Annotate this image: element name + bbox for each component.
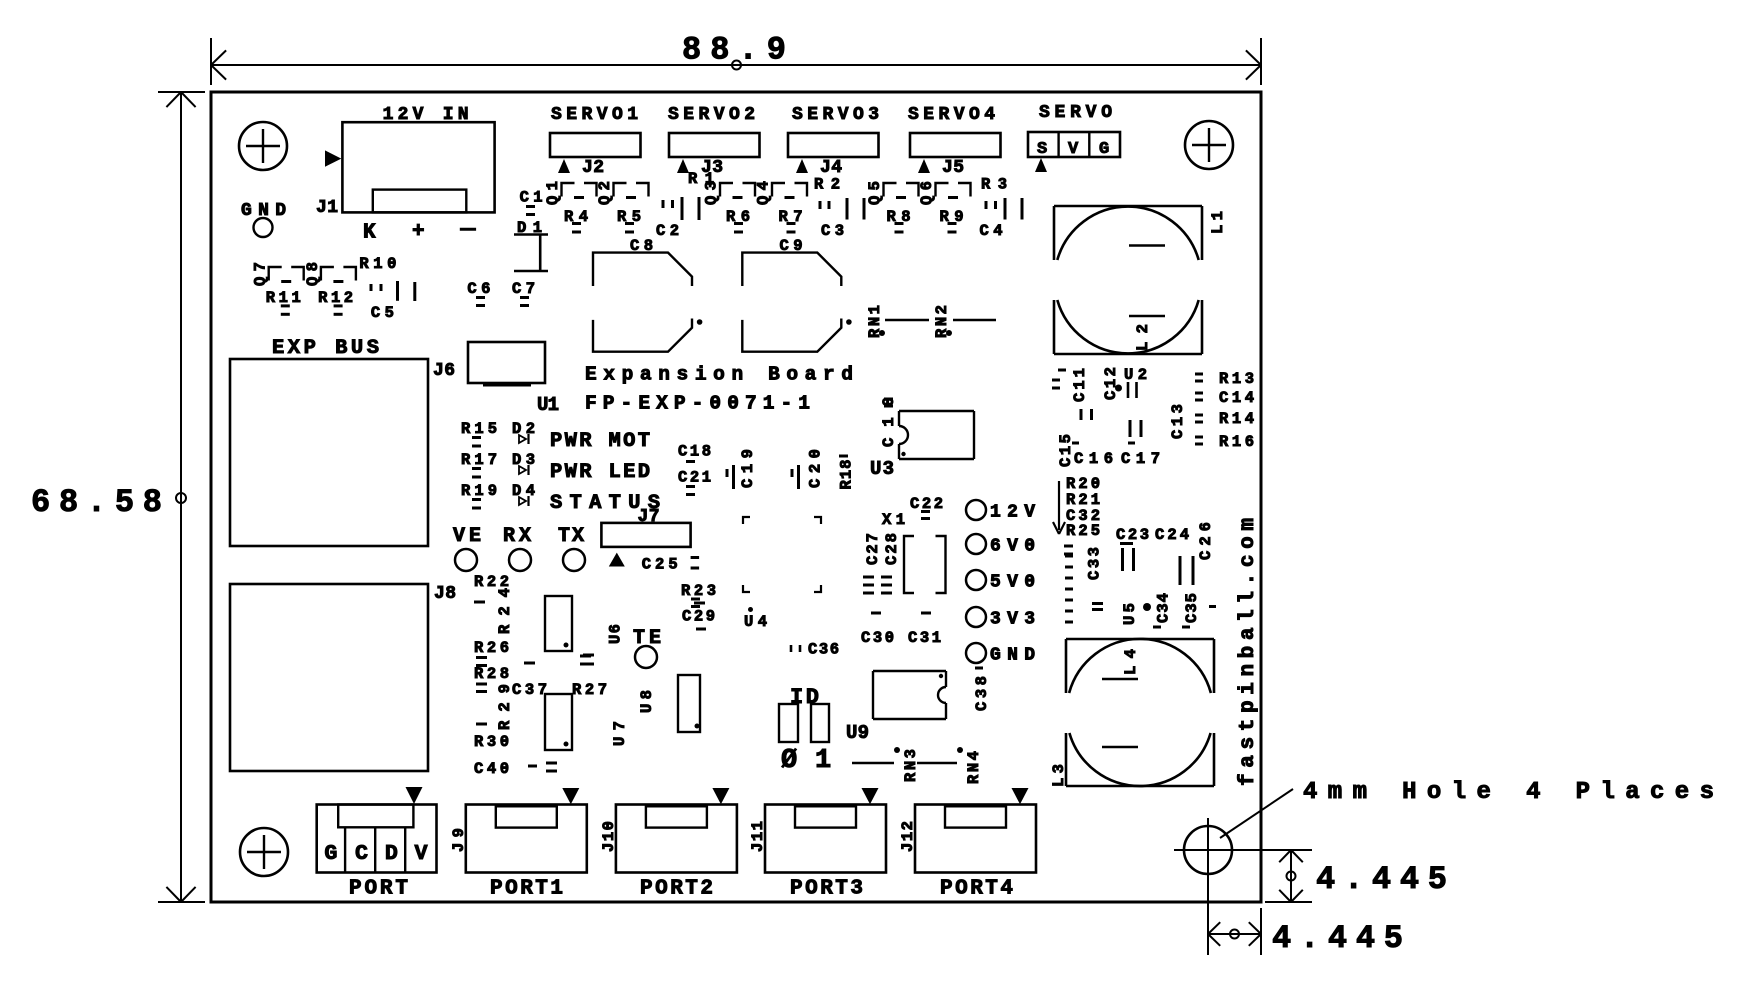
svg-text:PWR MOT: PWR MOT [550, 430, 650, 453]
svg-text:RN3: RN3 [902, 749, 920, 782]
capacitor C2 footprint marks [662, 200, 665, 208]
svg-text:C1: C1 [520, 189, 543, 207]
svg-text:C18: C18 [678, 443, 711, 461]
dimension: hole offset 4.445 vertical [1290, 850, 1292, 902]
svg-text:C38: C38 [973, 676, 991, 711]
svg-text:C36: C36 [808, 641, 839, 659]
svg-text:PORT: PORT [349, 878, 408, 901]
svg-text:C11: C11 [1071, 368, 1089, 402]
svg-text:SERVO4: SERVO4 [908, 105, 995, 125]
svg-text:12V: 12V [990, 503, 1035, 523]
connector J10 PORT2 [616, 805, 737, 873]
svg-text:C17: C17 [1121, 450, 1160, 468]
svg-text:GND: GND [990, 646, 1035, 666]
svg-text:Q6: Q6 [918, 181, 936, 205]
IC U7 footprint [545, 694, 572, 750]
svg-text:R23: R23 [681, 582, 716, 600]
svg-text:J10: J10 [600, 821, 618, 852]
svg-text:ID: ID [790, 685, 819, 710]
svg-text:R3: R3 [981, 176, 1007, 194]
svg-text:U2: U2 [1124, 366, 1147, 384]
svg-text:SERVO1: SERVO1 [551, 105, 638, 125]
svg-text:U4: U4 [744, 613, 767, 631]
jumper pad 1 [811, 704, 829, 742]
svg-text:R15: R15 [461, 420, 497, 438]
inductor L1 [1054, 205, 1202, 208]
test point 6V0 [966, 534, 986, 554]
svg-text:C28: C28 [883, 533, 901, 565]
svg-text:C13: C13 [1169, 404, 1187, 439]
svg-text:R28: R28 [474, 665, 509, 683]
svg-text:C27: C27 [864, 533, 882, 565]
svg-text:K: K [363, 222, 376, 245]
svg-text:R13: R13 [1219, 370, 1254, 388]
svg-text:RX: RX [503, 525, 531, 548]
capacitor C4 footprint marks [985, 201, 988, 209]
svg-text:Q5: Q5 [866, 181, 884, 205]
svg-text:R26: R26 [474, 639, 509, 657]
svg-text:U1: U1 [537, 394, 559, 416]
svg-text:R24: R24 [496, 588, 514, 634]
svg-text:C33: C33 [1086, 547, 1104, 580]
svg-text:C26: C26 [1197, 522, 1215, 560]
inductor L4 [1066, 638, 1214, 641]
svg-text:J11: J11 [749, 821, 767, 852]
svg-text:C: C [355, 841, 368, 866]
svg-text:C25: C25 [642, 556, 678, 574]
inductor L2 [1054, 353, 1202, 356]
svg-text:EXP BUS: EXP BUS [272, 337, 379, 360]
svg-text:PORT2: PORT2 [640, 878, 713, 901]
svg-text:C12: C12 [1102, 367, 1120, 400]
dimension: vertical board height 68.58 [180, 92, 182, 902]
connector PORT (G C D V) [317, 805, 437, 873]
svg-text:U7: U7 [611, 721, 629, 746]
svg-text:C2: C2 [656, 222, 679, 240]
pointer arrow for R20-R25 group [1058, 481, 1060, 530]
svg-text:Q8: Q8 [304, 262, 322, 286]
svg-text:PORT4: PORT4 [940, 878, 1013, 901]
connector J8 EXP BUS jack [230, 584, 428, 771]
svg-text:C34: C34 [1155, 593, 1173, 623]
svg-text:Q4: Q4 [755, 181, 773, 205]
svg-text:4.445: 4.445 [1316, 861, 1447, 898]
svg-text:C29: C29 [682, 608, 715, 626]
mounting hole top-left [239, 122, 287, 170]
svg-text:Q1: Q1 [544, 181, 562, 205]
svg-text:C31: C31 [908, 629, 941, 647]
svg-text:V: V [414, 841, 427, 866]
svg-text:1: 1 [815, 746, 831, 776]
svg-text:C16: C16 [1074, 450, 1113, 468]
svg-text:J1: J1 [316, 198, 338, 218]
svg-text:Q7: Q7 [252, 262, 270, 286]
leader 4mm hole note [1220, 789, 1293, 838]
svg-text:G: G [324, 841, 337, 866]
svg-text:R18: R18 [838, 460, 856, 490]
svg-text:C21: C21 [678, 468, 711, 486]
svg-text:fastpinball.com: fastpinball.com [1237, 518, 1260, 786]
dimension: hole offset 4.445 horizontal [1208, 933, 1261, 935]
svg-text:R16: R16 [1219, 433, 1254, 451]
svg-text:C24: C24 [1155, 526, 1189, 544]
connector J9 PORT1 [466, 805, 587, 873]
svg-text:RN4: RN4 [965, 751, 983, 784]
svg-text:C40: C40 [474, 760, 509, 778]
svg-text:R10: R10 [359, 255, 396, 273]
svg-text:SERVO3: SERVO3 [792, 105, 879, 125]
svg-text:C23: C23 [1116, 526, 1149, 544]
svg-text:D: D [385, 841, 398, 866]
svg-text:U6: U6 [607, 624, 625, 644]
connector J1 12V IN [342, 122, 494, 212]
svg-text:PORT3: PORT3 [790, 878, 863, 901]
svg-text:D2: D2 [512, 420, 535, 438]
svg-text:SERVO2: SERVO2 [668, 105, 755, 125]
IC U4 footprint corners [743, 517, 750, 524]
svg-text:X1: X1 [882, 511, 905, 529]
IC U9 [873, 670, 946, 672]
svg-text:Expansion Board: Expansion Board [585, 363, 853, 385]
svg-text:G: G [1099, 140, 1109, 159]
svg-text:R14: R14 [1219, 410, 1254, 428]
svg-text:R30: R30 [474, 733, 509, 751]
svg-text:Q2: Q2 [596, 181, 614, 205]
svg-text:+: + [412, 221, 425, 244]
svg-text:C15: C15 [1057, 434, 1075, 467]
capacitor C5 footprint marks [370, 284, 373, 291]
connector J11 PORT3 [765, 805, 886, 873]
svg-text:6V0: 6V0 [990, 537, 1035, 557]
svg-text:J2: J2 [582, 158, 604, 178]
svg-text:L4: L4 [1122, 649, 1140, 675]
svg-text:C3: C3 [821, 222, 844, 240]
svg-text:C30: C30 [861, 629, 894, 647]
svg-text:TX: TX [558, 525, 584, 548]
svg-text:C6: C6 [467, 280, 490, 298]
svg-text:J6: J6 [433, 361, 455, 381]
svg-text:4mm Hole 4 Places: 4mm Hole 4 Places [1303, 779, 1714, 806]
svg-text:C35: C35 [1183, 593, 1201, 623]
svg-text:88.9: 88.9 [682, 32, 786, 69]
svg-text:J8: J8 [434, 584, 456, 604]
svg-text:PWR LED: PWR LED [550, 461, 650, 484]
IC U8 footprint [678, 675, 700, 732]
svg-text:D3: D3 [512, 451, 535, 469]
svg-text:U3: U3 [870, 458, 894, 480]
svg-text:U8: U8 [638, 690, 656, 713]
svg-text:FP-EXP-0071-1: FP-EXP-0071-1 [585, 393, 810, 415]
svg-text:5V0: 5V0 [990, 573, 1035, 593]
svg-text:C5: C5 [371, 304, 394, 322]
svg-text:C20: C20 [807, 449, 825, 488]
test point 3V3 [966, 607, 986, 627]
svg-text:R19: R19 [461, 482, 497, 500]
svg-text:VE: VE [453, 525, 481, 548]
test point 5V0 [966, 570, 986, 590]
mounting hole top-right [1185, 121, 1233, 169]
svg-text:S: S [1037, 140, 1047, 159]
board outline [211, 92, 1261, 902]
mounting hole bottom-left [240, 828, 288, 876]
svg-text:C19: C19 [739, 449, 757, 488]
svg-text:PORT1: PORT1 [490, 878, 563, 901]
IC U3 [899, 410, 974, 412]
svg-text:L2: L2 [1134, 324, 1152, 351]
svg-text:J12: J12 [899, 821, 917, 852]
svg-text:68.58: 68.58 [31, 484, 162, 521]
jumper pad 0 [779, 704, 798, 742]
svg-text:3V3: 3V3 [990, 610, 1035, 630]
IC U6 footprint [545, 596, 572, 651]
mounting hole bottom-right [1184, 826, 1232, 874]
inductor L3 [1066, 785, 1214, 788]
svg-text:Ø: Ø [781, 746, 797, 776]
svg-text:R17: R17 [461, 451, 497, 469]
svg-text:U9: U9 [846, 722, 869, 744]
svg-text:U5: U5 [1121, 603, 1139, 625]
test point GND [966, 643, 986, 663]
connector J6 EXP BUS jack [230, 359, 428, 546]
svg-text:4.445: 4.445 [1272, 920, 1403, 957]
svg-text:C37: C37 [512, 681, 547, 699]
capacitor C34 pad [1153, 626, 1161, 629]
svg-text:SERVO: SERVO [1039, 103, 1112, 123]
svg-text:R25: R25 [1066, 522, 1100, 540]
capacitor C3 footprint marks [819, 201, 822, 209]
svg-text:C14: C14 [1219, 389, 1254, 407]
dimension: horizontal board width 88.9 [211, 64, 1261, 66]
svg-text:V: V [1068, 140, 1079, 159]
component near U1 (connector footprint) [468, 342, 545, 383]
svg-text:R27: R27 [572, 681, 607, 699]
svg-text:R2: R2 [814, 176, 840, 194]
test point 12V [966, 500, 986, 520]
svg-text:L1: L1 [1209, 211, 1227, 234]
svg-text:C7: C7 [512, 280, 535, 298]
connector J12 PORT4 [915, 805, 1036, 873]
svg-text:C4: C4 [980, 222, 1003, 240]
svg-text:D4: D4 [512, 482, 535, 500]
svg-text:J5: J5 [942, 158, 964, 178]
